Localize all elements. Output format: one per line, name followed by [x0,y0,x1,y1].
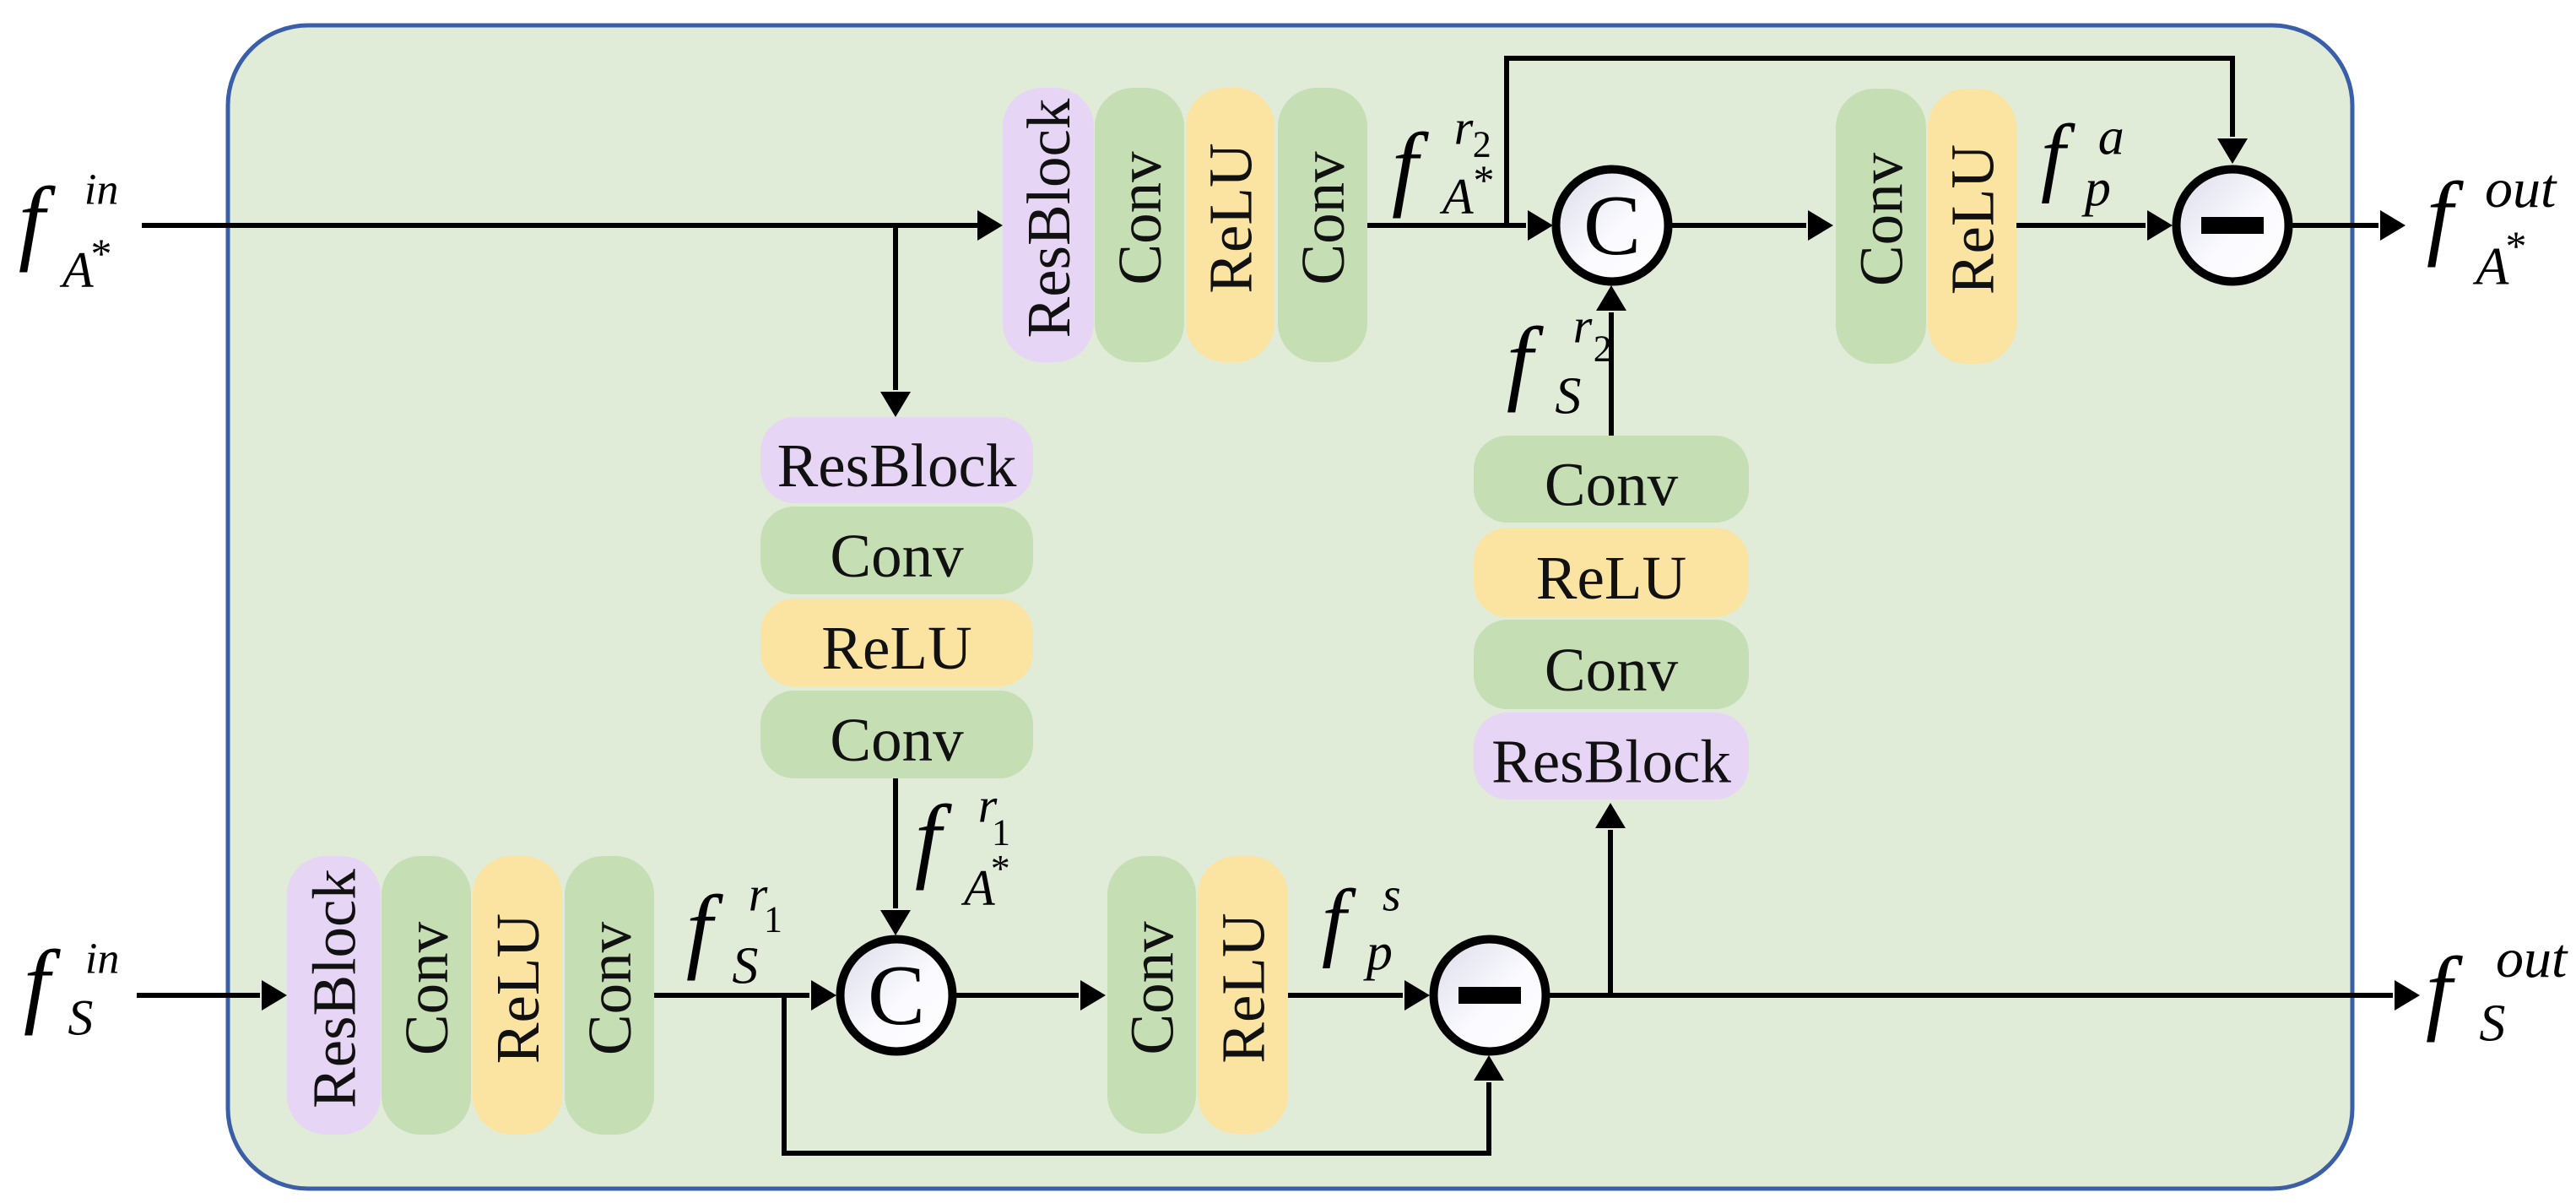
svg-text:p: p [2081,160,2111,217]
svg-text:r: r [1573,299,1593,354]
svg-text:ReLU: ReLU [484,913,552,1064]
svg-text:Conv: Conv [1118,921,1187,1055]
svg-text:Conv: Conv [1545,636,1679,704]
svg-text:a: a [2098,109,2124,166]
svg-text:*: * [1474,156,1495,203]
svg-text:*: * [2506,222,2527,269]
svg-text:f: f [2427,164,2465,268]
svg-text:ResBlock: ResBlock [300,869,369,1108]
svg-text:f: f [24,932,62,1037]
svg-text:*: * [91,230,112,277]
svg-text:ReLU: ReLU [1210,913,1278,1063]
svg-text:ReLU: ReLU [1536,544,1686,612]
svg-text:C: C [868,948,925,1043]
svg-text:S: S [68,989,93,1045]
svg-text:Conv: Conv [1106,151,1174,285]
svg-text:ResBlock: ResBlock [1015,98,1083,338]
svg-text:ReLU: ReLU [821,614,971,682]
svg-text:Conv: Conv [392,921,461,1055]
svg-text:ReLU: ReLU [1197,143,1265,293]
svg-text:*: * [991,847,1010,890]
svg-text:in: in [85,935,119,984]
svg-text:r: r [1454,100,1474,155]
svg-text:Conv: Conv [1545,451,1679,519]
svg-text:ReLU: ReLU [1939,144,2007,295]
svg-text:Conv: Conv [576,921,644,1055]
svg-text:ResBlock: ResBlock [777,431,1017,500]
svg-text:Conv: Conv [1848,152,1916,286]
svg-text:out: out [2485,158,2557,219]
svg-text:S: S [1555,367,1581,425]
svg-text:S: S [2479,994,2505,1052]
svg-text:A: A [2472,236,2509,295]
svg-text:S: S [732,937,758,994]
svg-text:ResBlock: ResBlock [1491,728,1731,796]
svg-text:Conv: Conv [1289,151,1357,285]
svg-text:1: 1 [764,898,782,940]
svg-text:2: 2 [1594,328,1612,369]
svg-text:Conv: Conv [830,706,964,774]
svg-text:f: f [2426,939,2464,1043]
svg-text:f: f [19,169,57,274]
svg-text:A: A [1439,169,1474,225]
svg-text:in: in [84,166,118,214]
svg-text:A: A [59,242,94,298]
svg-text:p: p [1363,924,1393,981]
svg-text:Conv: Conv [830,522,964,590]
svg-text:C: C [1583,178,1641,274]
svg-text:s: s [1383,870,1401,922]
svg-text:out: out [2496,928,2568,989]
